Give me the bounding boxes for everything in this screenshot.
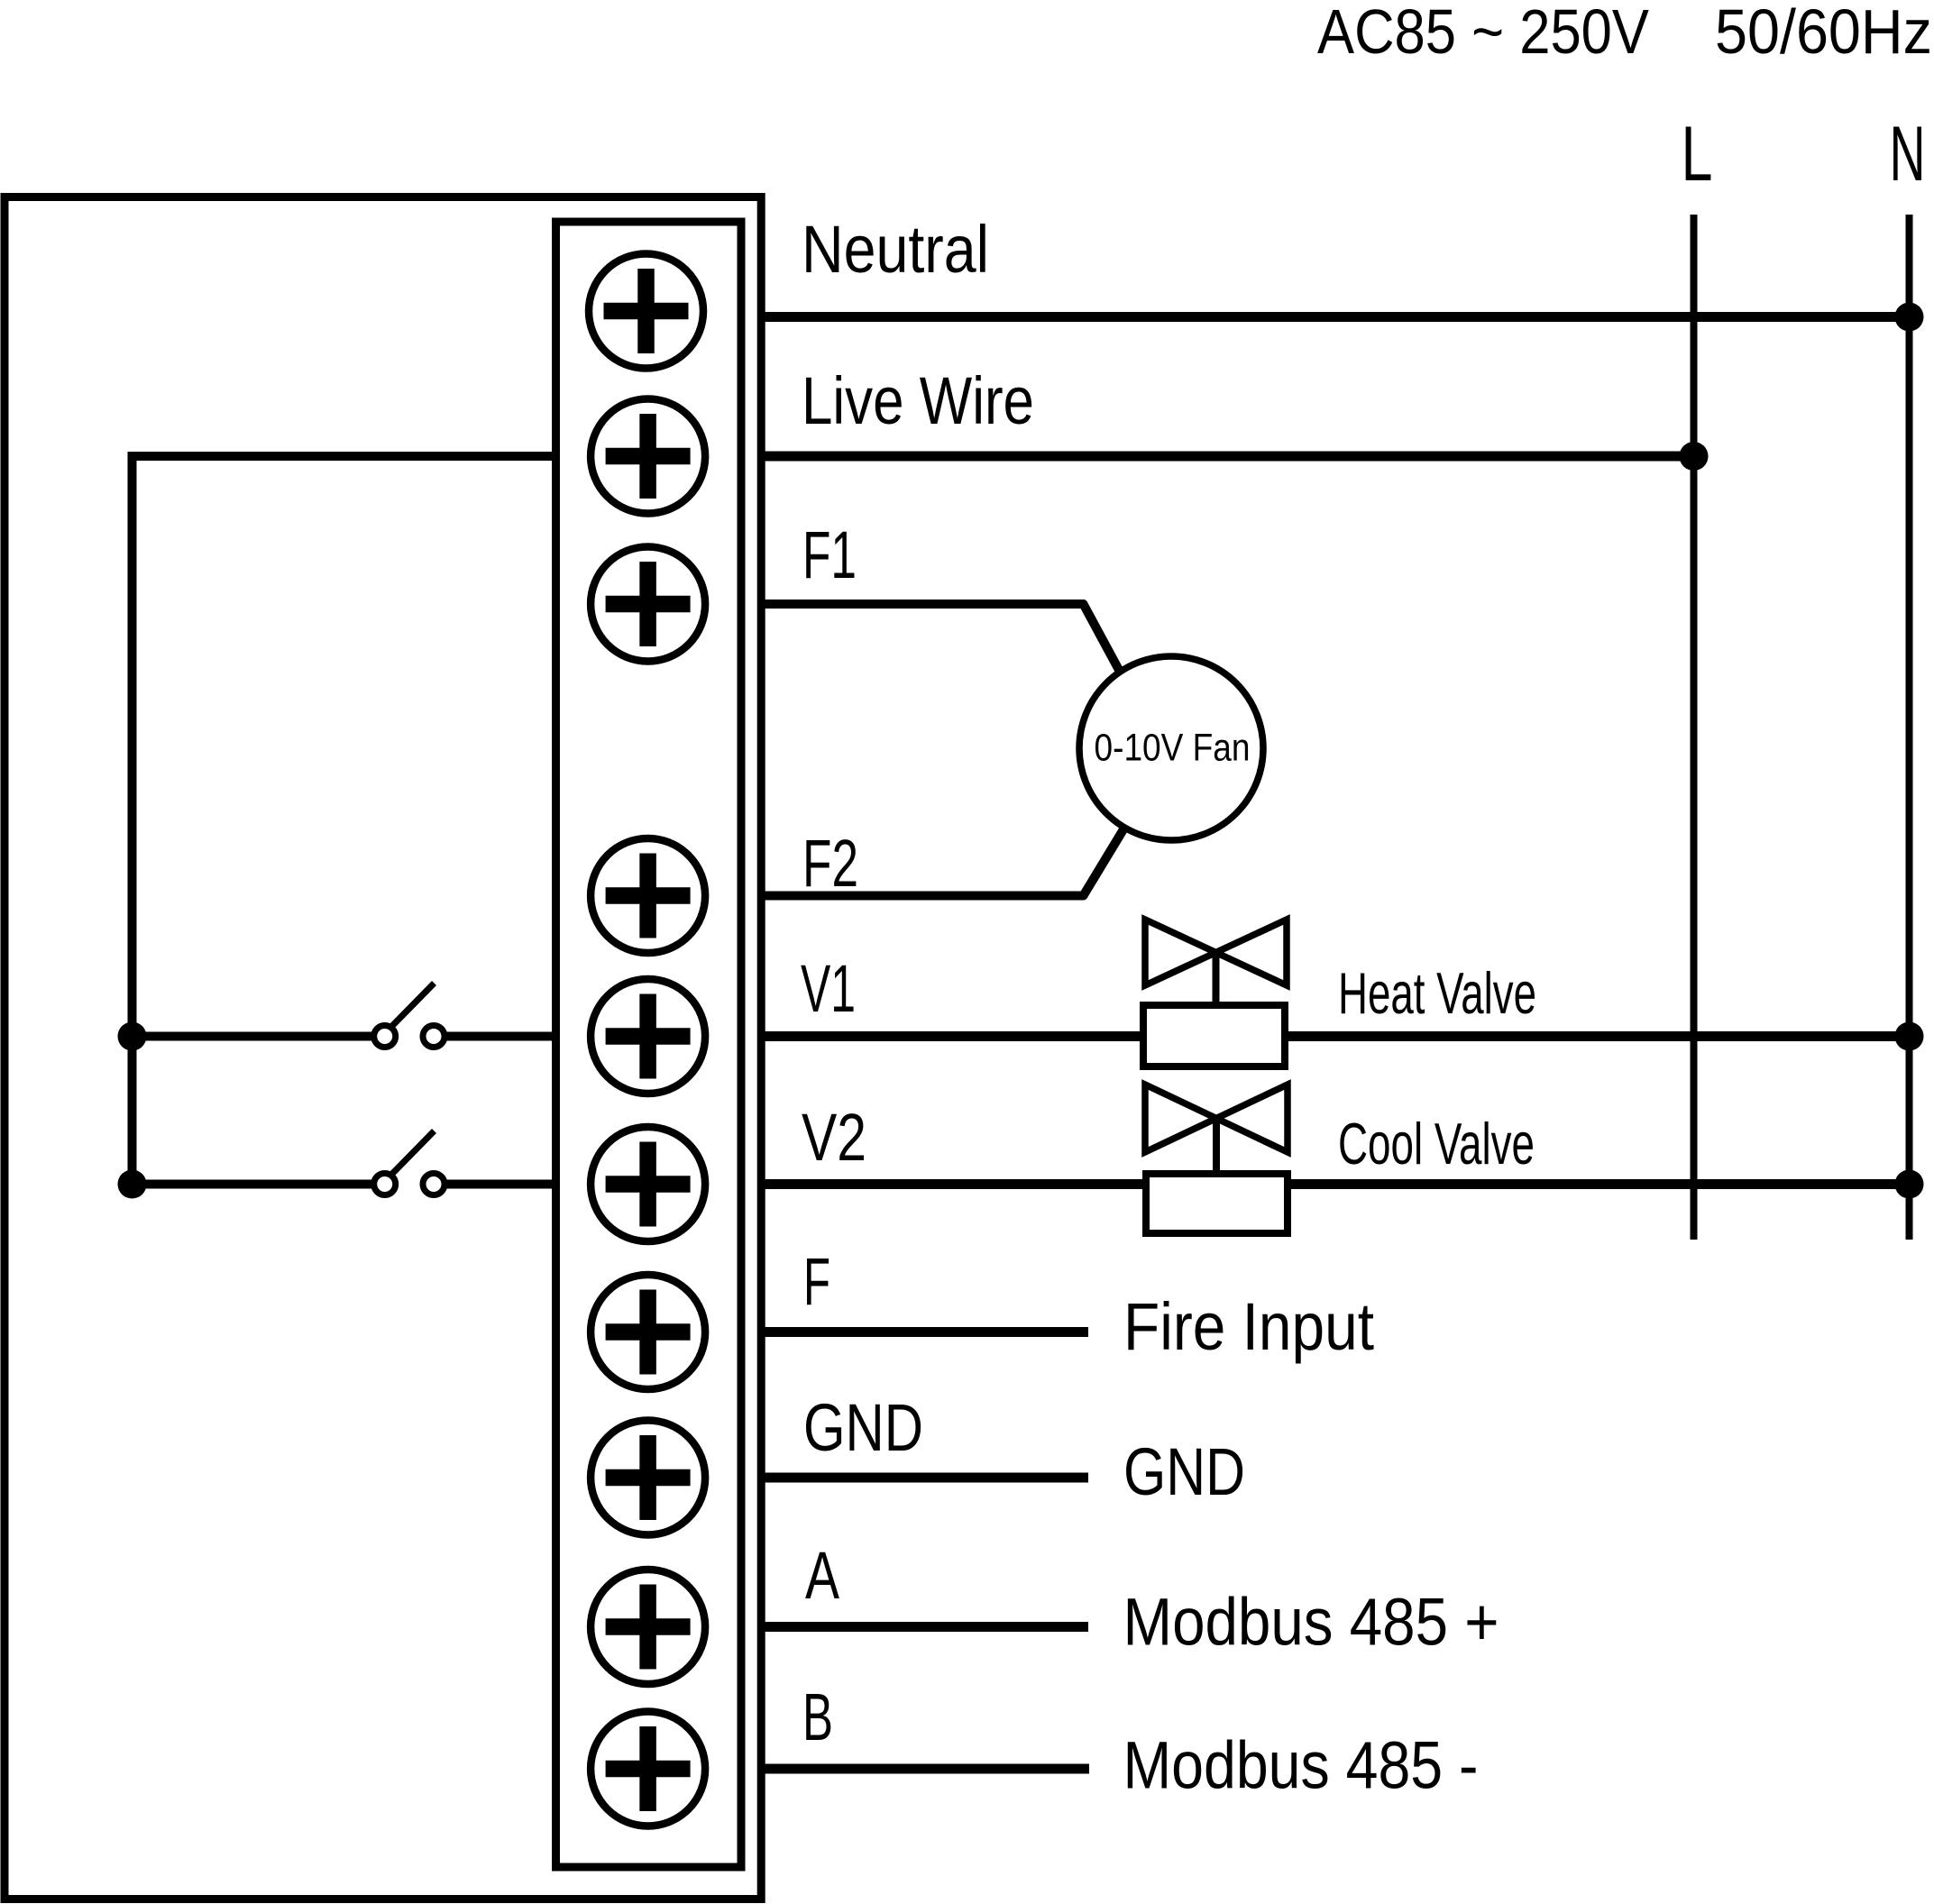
wire F (fire input) xyxy=(759,1327,1088,1337)
svg-text:Live Wire: Live Wire xyxy=(802,363,1034,438)
svg-text:L: L xyxy=(1682,111,1713,197)
wire V2 switch right xyxy=(446,1180,568,1189)
svg-text:Heat Valve: Heat Valve xyxy=(1338,960,1536,1026)
wire V1 switch left xyxy=(133,1032,372,1041)
junction dot neutral/N xyxy=(1895,303,1924,332)
screw terminal 3 (F1) xyxy=(591,547,705,662)
switch S1 contact left xyxy=(374,1026,396,1048)
wire F2 to fan xyxy=(759,829,1123,896)
mains line L xyxy=(1691,215,1698,1240)
svg-text:F1: F1 xyxy=(802,517,857,592)
svg-text:V1: V1 xyxy=(801,951,856,1026)
svg-text:AC85 ~ 250V: AC85 ~ 250V xyxy=(1317,0,1649,67)
svg-text:Fire Input: Fire Input xyxy=(1123,1289,1374,1364)
junction dot V1/N xyxy=(1895,1022,1924,1051)
heat valve actuator xyxy=(1143,1005,1285,1066)
wire V2 switch left xyxy=(133,1180,372,1189)
screw terminal 6 (V2) xyxy=(591,1127,705,1241)
screw terminal 8 (GND) xyxy=(591,1421,705,1535)
svg-text:V2: V2 xyxy=(802,1100,866,1175)
junction dot left V1 xyxy=(118,1022,147,1051)
wire neutral (terminal N to mains N) xyxy=(759,312,1910,322)
junction dot left V2 xyxy=(118,1170,147,1199)
wire F1 to fan xyxy=(759,604,1120,672)
switch S2 contact right xyxy=(423,1174,445,1195)
svg-text:Modbus 485 +: Modbus 485 + xyxy=(1123,1585,1499,1660)
switch S1 contact right xyxy=(423,1026,445,1048)
wire A (modbus +) xyxy=(759,1622,1088,1632)
wire V2 row (cool valve wire) xyxy=(759,1179,1910,1189)
wire V1 row (heat valve wire) xyxy=(759,1031,1910,1041)
svg-text:50/60Hz: 50/60Hz xyxy=(1715,0,1932,67)
cool valve stem xyxy=(1213,1119,1220,1173)
screw terminal 4 (F2) xyxy=(591,838,705,953)
screw terminal 10 (B) xyxy=(591,1712,705,1826)
device outline xyxy=(5,197,761,1899)
svg-text:F: F xyxy=(803,1244,830,1319)
mains line N xyxy=(1906,215,1913,1240)
terminal strip xyxy=(556,222,742,1867)
svg-text:Cool Valve: Cool Valve xyxy=(1338,1111,1535,1176)
svg-text:A: A xyxy=(805,1538,839,1613)
wire B (modbus -) xyxy=(759,1764,1089,1774)
wire GND xyxy=(759,1473,1088,1483)
svg-text:GND: GND xyxy=(803,1390,923,1465)
svg-text:B: B xyxy=(802,1680,833,1754)
screw terminal 9 (A) xyxy=(591,1570,705,1684)
junction dot V2/N xyxy=(1895,1170,1924,1199)
cool valve bowtie xyxy=(1145,1085,1288,1152)
wire live tap left vertical xyxy=(133,456,592,1185)
svg-text:Modbus 485 -: Modbus 485 - xyxy=(1123,1728,1479,1803)
wire V1 switch right xyxy=(446,1032,568,1041)
screw terminal 7 (F) xyxy=(591,1275,705,1389)
svg-text:GND: GND xyxy=(1123,1434,1245,1509)
junction dot live/L xyxy=(1680,442,1709,471)
svg-text:Neutral: Neutral xyxy=(802,212,989,287)
wire live (terminal L to mains L) xyxy=(759,452,1694,462)
switch S1 lever xyxy=(391,984,435,1028)
svg-text:0-10V Fan: 0-10V Fan xyxy=(1095,727,1251,770)
svg-text:F2: F2 xyxy=(802,826,858,901)
svg-text:N: N xyxy=(1890,111,1926,197)
screw terminal 5 (V1) xyxy=(591,979,705,1094)
heat valve bowtie xyxy=(1145,920,1287,985)
screw terminal 2 (Live) xyxy=(591,399,705,514)
switch S2 contact left xyxy=(374,1174,396,1195)
heat valve stem xyxy=(1213,953,1220,1004)
cool valve actuator xyxy=(1146,1174,1288,1233)
screw terminal 1 (Neutral) xyxy=(589,254,703,369)
fan motor circle xyxy=(1079,656,1263,840)
switch S2 lever xyxy=(391,1131,435,1176)
